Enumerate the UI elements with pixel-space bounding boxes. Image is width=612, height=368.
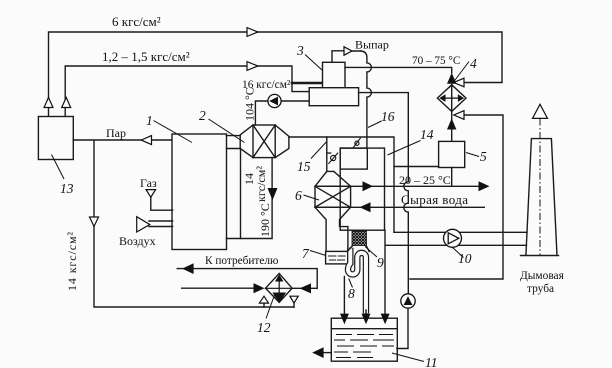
svg-text:2: 2 bbox=[199, 108, 206, 123]
svg-text:1: 1 bbox=[146, 113, 153, 128]
svg-text:14: 14 bbox=[420, 127, 434, 142]
svg-text:6: 6 bbox=[295, 188, 302, 203]
svg-text:Дымовая: Дымовая bbox=[520, 270, 565, 282]
svg-text:10: 10 bbox=[458, 251, 472, 266]
svg-text:70 – 75 °С: 70 – 75 °С bbox=[412, 55, 460, 67]
svg-text:Воздух: Воздух bbox=[119, 234, 156, 248]
svg-text:4: 4 bbox=[470, 56, 477, 71]
svg-text:9: 9 bbox=[377, 255, 384, 270]
svg-text:190 °С: 190 °С bbox=[258, 203, 272, 237]
svg-text:кгс/см²: кгс/см² bbox=[254, 166, 268, 202]
svg-text:16: 16 bbox=[381, 109, 395, 124]
svg-text:3: 3 bbox=[296, 43, 304, 58]
svg-text:7: 7 bbox=[302, 246, 310, 261]
svg-text:К потребителю: К потребителю bbox=[205, 255, 279, 267]
svg-text:13: 13 bbox=[60, 181, 74, 196]
svg-text:20 – 25 °С: 20 – 25 °С bbox=[399, 173, 451, 187]
svg-text:14 кгс/см²: 14 кгс/см² bbox=[65, 231, 79, 291]
svg-text:104 °С: 104 °С bbox=[243, 87, 257, 121]
svg-text:труба: труба bbox=[527, 283, 554, 295]
svg-text:5: 5 bbox=[480, 149, 487, 164]
svg-text:12: 12 bbox=[257, 320, 271, 335]
svg-text:15: 15 bbox=[297, 159, 311, 174]
svg-text:Газ: Газ bbox=[140, 176, 157, 190]
svg-text:11: 11 bbox=[425, 355, 438, 368]
svg-text:8: 8 bbox=[348, 286, 355, 301]
svg-text:Сырая вода: Сырая вода bbox=[401, 192, 468, 207]
svg-text:1,2 – 1,5 кгс/см²: 1,2 – 1,5 кгс/см² bbox=[102, 49, 190, 64]
svg-text:Выпар: Выпар bbox=[355, 38, 389, 52]
svg-text:6 кгс/см²: 6 кгс/см² bbox=[112, 14, 161, 29]
svg-text:Пар: Пар bbox=[106, 126, 126, 140]
